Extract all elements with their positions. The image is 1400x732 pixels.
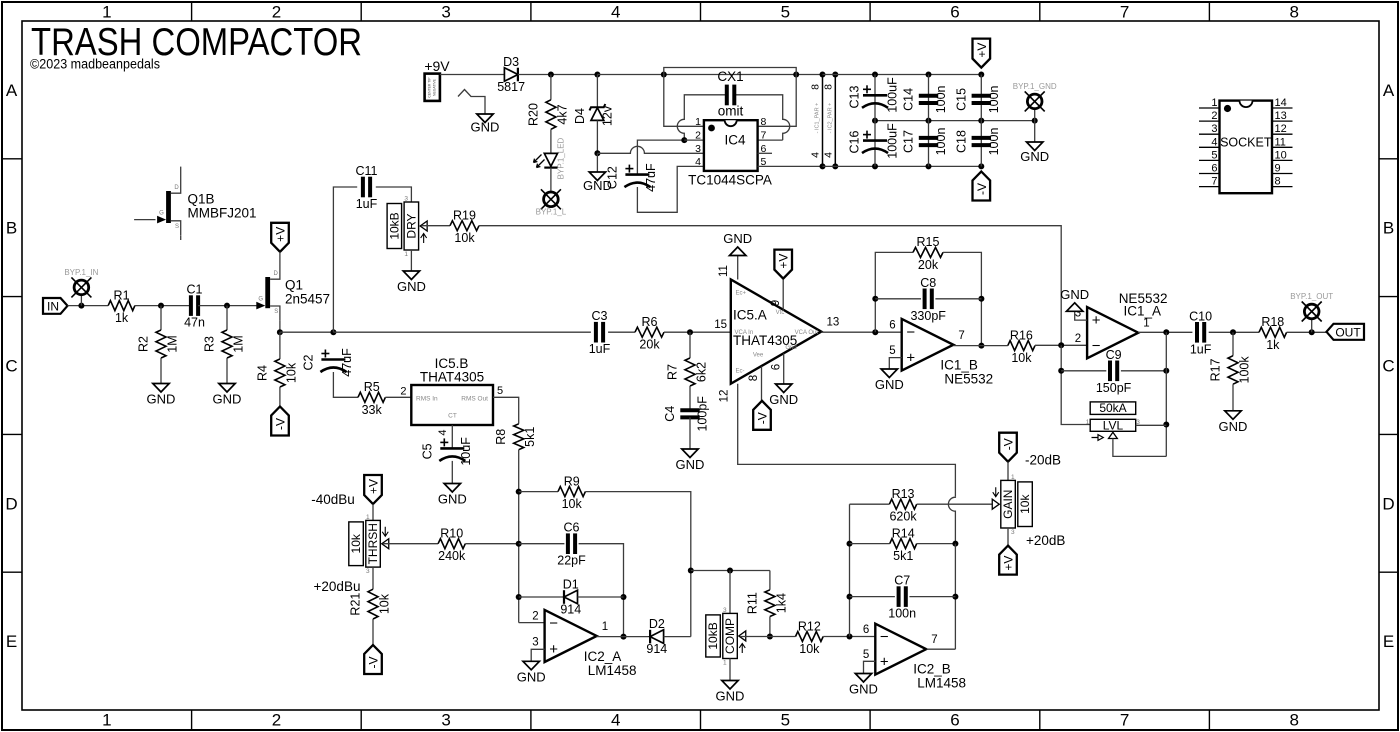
svg-text:1M: 1M	[166, 335, 180, 352]
svg-text:GND: GND	[676, 457, 705, 472]
svg-text:D3: D3	[503, 55, 519, 69]
capacitor C3	[594, 322, 598, 343]
connector OUT	[1327, 324, 1365, 340]
pad BYP.1_L	[544, 192, 559, 207]
junction	[926, 118, 932, 124]
svg-text:C2: C2	[301, 354, 315, 370]
svg-text:2: 2	[695, 130, 701, 142]
wire DRY wiper to R19	[422, 225, 451, 227]
ground C5	[444, 484, 460, 493]
resistor R8	[514, 424, 524, 450]
junction	[767, 634, 773, 640]
junction	[978, 296, 984, 302]
svg-text:NEGATIVE: NEGATIVE	[433, 78, 437, 96]
power +V rail	[973, 39, 991, 68]
wire C6 right	[579, 544, 624, 637]
svg-text:Vee: Vee	[753, 353, 764, 359]
svg-text:R8: R8	[494, 429, 508, 445]
svg-text:S: S	[175, 224, 179, 230]
wire D4 top	[596, 75, 598, 108]
wire GAIN bottom	[1007, 528, 1009, 546]
power +V IC5.A	[774, 250, 792, 279]
junction	[158, 303, 164, 309]
trimmer 50kA box	[1090, 402, 1136, 415]
resistor R16	[1008, 341, 1035, 351]
wire C11 left	[333, 187, 357, 332]
svg-text:4: 4	[437, 429, 449, 435]
svg-text:R1: R1	[114, 288, 130, 302]
svg-text:3: 3	[441, 3, 450, 22]
junction	[516, 541, 522, 547]
op-amp IC2_A	[545, 610, 597, 662]
svg-text:COMP: COMP	[723, 618, 737, 654]
junction	[847, 634, 853, 640]
svg-text:914: 914	[560, 603, 581, 617]
svg-text:omit: omit	[718, 104, 744, 119]
resistor R14	[890, 539, 917, 549]
wire pin12 to lower	[738, 384, 956, 497]
svg-text:LM1458: LM1458	[588, 663, 637, 678]
junction	[872, 118, 878, 124]
ground IC5.A pin6	[776, 384, 792, 393]
wire C1 to Q1 gate	[198, 305, 258, 307]
svg-text:C8: C8	[920, 276, 936, 290]
svg-text:7: 7	[1120, 3, 1129, 22]
wire pad BYP.1_IN	[80, 295, 82, 306]
op-amp IC2_B	[875, 624, 926, 675]
junction	[872, 72, 878, 78]
wire LVL wiper return	[1113, 439, 1166, 457]
power -V R4	[271, 407, 289, 436]
junction	[688, 568, 694, 574]
wire hop R13	[948, 496, 955, 543]
wire C13 leads	[874, 75, 876, 121]
wire pin13 out	[821, 331, 901, 333]
resistor R19	[450, 221, 479, 231]
svg-text:1: 1	[723, 660, 727, 667]
capacitor C7	[897, 586, 901, 607]
wire C8 left	[875, 298, 921, 300]
resistor R17	[1228, 356, 1238, 385]
svg-text:5k1: 5k1	[523, 427, 537, 447]
wire mid rail	[875, 120, 1035, 122]
capacitor C18	[972, 136, 991, 140]
junction	[621, 594, 627, 600]
svg-text:10k: 10k	[349, 533, 363, 553]
svg-text:Gnd: Gnd	[785, 345, 796, 351]
wire R14 left	[850, 543, 890, 545]
wire IC2_B out	[927, 648, 956, 650]
svg-text:7: 7	[761, 130, 767, 142]
wire pin8 riser	[758, 75, 797, 127]
capacitor C12	[625, 173, 649, 176]
svg-text:R18: R18	[1261, 315, 1284, 329]
junction	[847, 594, 853, 600]
svg-text:1: 1	[404, 251, 408, 258]
ground IC2_A pin3	[523, 661, 539, 670]
power pins IC2_PAR	[834, 75, 836, 167]
resistor R21	[368, 589, 378, 619]
wire R13 left	[850, 503, 890, 505]
svg-text:1uF: 1uF	[589, 342, 611, 356]
resistor R2	[156, 330, 166, 358]
svg-text:7: 7	[1211, 176, 1217, 188]
svg-text:240k: 240k	[438, 549, 466, 563]
capacitor C6	[566, 533, 570, 554]
svg-text:C3: C3	[592, 309, 608, 323]
wire R13 to GAIN wiper	[917, 503, 994, 505]
wire Q1B source	[180, 235, 182, 240]
power -V R21	[364, 645, 382, 674]
svg-text:TC1044SCPA: TC1044SCPA	[688, 173, 772, 188]
wire pin3 gnd hook	[1075, 311, 1087, 320]
wire R18 to OUT	[1287, 331, 1327, 333]
wire CX1 left	[684, 95, 726, 119]
svg-text:E: E	[6, 632, 17, 651]
junction	[978, 343, 984, 349]
wire D3 to node	[518, 74, 598, 76]
ground IC2_B pin5	[855, 674, 871, 683]
capacitor C1	[189, 295, 193, 316]
ground BYP.1_GND	[1027, 142, 1043, 151]
ground DRY	[403, 271, 419, 280]
svg-text:10: 10	[1275, 149, 1287, 161]
resistor R4	[275, 359, 285, 387]
svg-text:330pF: 330pF	[910, 309, 946, 323]
svg-text:-V: -V	[1002, 438, 1016, 450]
junction	[952, 594, 958, 600]
svg-text:8: 8	[761, 116, 767, 128]
power pins IC1_PAR	[822, 75, 824, 167]
wire C8 right	[935, 298, 981, 300]
wire R7 to C4	[689, 386, 691, 410]
svg-text:6k2: 6k2	[695, 362, 709, 382]
resistor R3	[222, 330, 232, 358]
diode D3	[517, 68, 519, 82]
svg-text:12v: 12v	[601, 105, 615, 126]
svg-text:+: +	[880, 654, 889, 671]
svg-text:Vtc: Vtc	[776, 310, 785, 316]
wire comp node row	[691, 570, 770, 572]
svg-text:+20dB: +20dB	[1026, 533, 1065, 548]
wire into pin2 IC2_A	[519, 622, 545, 624]
wire C10 to R18	[1209, 331, 1259, 333]
svg-text:10k: 10k	[1011, 351, 1032, 365]
svg-text:100pF: 100pF	[696, 396, 710, 432]
svg-text:2: 2	[272, 3, 281, 22]
svg-text:9: 9	[1275, 163, 1281, 175]
svg-text:10k: 10k	[454, 231, 475, 245]
svg-text:3: 3	[366, 568, 370, 575]
svg-text:7: 7	[1120, 711, 1129, 730]
capacitor C9	[1108, 361, 1112, 382]
svg-text:R6: R6	[642, 315, 658, 329]
DC jack J1	[425, 74, 440, 101]
junction	[224, 303, 230, 309]
power +V THRSH	[364, 475, 382, 504]
wire R1 to C1	[135, 305, 191, 307]
wire C9 right	[1121, 370, 1166, 372]
wire R17 to gnd	[1232, 384, 1234, 411]
ground jack	[477, 114, 493, 123]
svg-text:10k: 10k	[284, 362, 298, 383]
svg-text:4: 4	[611, 3, 620, 22]
svg-text:100uF: 100uF	[886, 77, 900, 113]
svg-text:- IC2_PAR +: - IC2_PAR +	[827, 103, 833, 134]
svg-text:MMBFJ201: MMBFJ201	[188, 206, 257, 221]
power -V GAIN	[999, 433, 1017, 462]
junction	[516, 594, 522, 600]
svg-text:1: 1	[1143, 318, 1149, 330]
capacitor C4	[680, 408, 699, 412]
svg-text:3: 3	[404, 196, 408, 203]
svg-text:GND: GND	[1219, 419, 1248, 434]
svg-text:IC2_B: IC2_B	[913, 662, 951, 677]
svg-text:R10: R10	[440, 527, 463, 541]
svg-text:+: +	[1092, 312, 1101, 329]
svg-text:2: 2	[1211, 110, 1217, 122]
svg-text:1k4: 1k4	[774, 593, 788, 613]
svg-text:+20dBu: +20dBu	[314, 579, 361, 594]
svg-text:C: C	[1382, 357, 1394, 376]
resistor R18	[1259, 327, 1287, 337]
wire IC1_B out	[953, 345, 1008, 347]
svg-text:B: B	[6, 219, 17, 238]
svg-text:C: C	[5, 357, 17, 376]
svg-text:1: 1	[102, 711, 111, 730]
wire R16 to pin2	[1035, 344, 1087, 346]
svg-text:5: 5	[1211, 149, 1217, 161]
capacitor C15	[972, 94, 991, 98]
junction	[820, 72, 826, 78]
transistor Q1	[265, 277, 270, 308]
svg-text:-V: -V	[975, 183, 989, 195]
svg-text:2: 2	[400, 386, 406, 398]
svg-text:D: D	[5, 494, 17, 513]
svg-text:SOCKET: SOCKET	[1220, 136, 1272, 150]
svg-text:8: 8	[810, 84, 822, 90]
wire pad BYP.1_OUT	[1311, 319, 1313, 333]
svg-text:1: 1	[602, 621, 608, 633]
svg-text:100n: 100n	[888, 607, 916, 621]
wire R11 bottom	[769, 617, 771, 637]
wire R19 to IC1_A node	[479, 226, 1061, 346]
svg-text:8: 8	[748, 375, 760, 381]
svg-text:6: 6	[863, 624, 869, 636]
svg-text:IN: IN	[47, 299, 59, 313]
svg-text:11: 11	[1275, 136, 1286, 148]
svg-text:7: 7	[931, 634, 937, 646]
svg-text:R9: R9	[564, 474, 580, 488]
svg-text:R2: R2	[137, 336, 151, 352]
diode D1	[563, 590, 565, 604]
wire R9 left	[519, 491, 558, 493]
svg-text:8: 8	[1289, 3, 1298, 22]
svg-text:15: 15	[714, 319, 727, 331]
svg-text:D: D	[274, 271, 279, 277]
svg-text:1uF: 1uF	[1190, 342, 1212, 356]
op-amp IC1_A	[1087, 307, 1138, 358]
svg-text:3: 3	[723, 607, 727, 614]
svg-text:47n: 47n	[184, 316, 205, 330]
junction	[872, 329, 878, 335]
junction	[832, 72, 838, 78]
svg-text:3: 3	[441, 711, 450, 730]
svg-text:GND: GND	[875, 377, 904, 392]
svg-text:R17: R17	[1209, 358, 1223, 381]
ground IC1_B pin5	[881, 369, 897, 378]
svg-text:13: 13	[1275, 110, 1287, 122]
svg-text:1: 1	[1211, 97, 1217, 109]
svg-text:150pF: 150pF	[1096, 381, 1132, 395]
svg-text:GND: GND	[213, 392, 242, 407]
svg-text:IC1_B: IC1_B	[940, 358, 978, 373]
svg-text:R3: R3	[203, 336, 217, 352]
wire top rail right	[823, 74, 982, 76]
svg-text:1k: 1k	[1266, 338, 1280, 352]
wire C3 to R6	[608, 331, 635, 333]
wire R3 top	[226, 306, 228, 330]
wire fb right	[943, 252, 981, 345]
svg-text:+: +	[906, 350, 915, 367]
svg-text:RMS In: RMS In	[416, 396, 438, 403]
svg-text:GND: GND	[769, 392, 798, 407]
svg-text:C13: C13	[848, 85, 862, 108]
svg-text:Q1: Q1	[285, 278, 303, 293]
svg-text:THRSH: THRSH	[366, 523, 380, 564]
svg-text:1: 1	[366, 514, 370, 521]
wire pin9 Vtc	[782, 280, 784, 310]
wire rail through CX1	[597, 74, 822, 76]
svg-text:10k: 10k	[378, 593, 392, 614]
junction	[978, 163, 984, 169]
junction	[1163, 368, 1169, 374]
capacitor C8	[923, 289, 927, 310]
resistor R11	[765, 590, 775, 617]
svg-text:BYP.1_L: BYP.1_L	[536, 208, 567, 217]
ground IC1_A pin3	[1067, 303, 1083, 312]
svg-text:R20: R20	[526, 103, 540, 126]
svg-text:13: 13	[827, 317, 840, 329]
svg-text:1: 1	[695, 116, 701, 128]
svg-text:GND: GND	[1060, 287, 1089, 302]
wire gnd stub D4	[596, 153, 598, 172]
svg-text:GND: GND	[716, 689, 745, 704]
svg-text:914: 914	[646, 642, 667, 656]
svg-text:9: 9	[770, 300, 782, 306]
svg-text:4: 4	[1211, 136, 1217, 148]
wire C9 left	[1061, 370, 1106, 372]
svg-text:C9: C9	[1106, 348, 1122, 362]
wire pin7 stub	[758, 139, 783, 141]
svg-text:+V: +V	[367, 479, 381, 494]
junction	[926, 72, 932, 78]
wire C12 top	[637, 140, 684, 175]
resistor R13	[889, 499, 916, 509]
svg-text:GND: GND	[147, 392, 176, 407]
svg-text:3: 3	[695, 143, 701, 155]
wire bottom rail right	[823, 165, 982, 167]
svg-text:R7: R7	[666, 364, 680, 380]
wire C12 bottom loop	[637, 166, 704, 212]
wire R7 top	[689, 332, 691, 358]
svg-text:D2: D2	[649, 617, 665, 631]
svg-text:100uF: 100uF	[886, 123, 900, 159]
svg-text:LVL: LVL	[1103, 419, 1124, 433]
svg-text:3: 3	[1211, 123, 1217, 135]
wire out to LVL	[1165, 332, 1167, 456]
svg-text:+V: +V	[1002, 556, 1016, 571]
svg-text:6: 6	[950, 711, 959, 730]
wire THRSH top	[372, 504, 374, 520]
wire R2 to gnd	[160, 358, 162, 384]
wire R9 right	[585, 492, 690, 637]
IC IC5.B THAT4305	[411, 385, 493, 425]
svg-text:IC1_A: IC1_A	[1124, 304, 1162, 319]
wire RMSOut to R8	[493, 397, 519, 424]
wire pin6 Gnd	[783, 353, 785, 384]
svg-text:-V: -V	[274, 418, 288, 430]
power -V IC5.A	[753, 401, 771, 430]
wire pin1 riser	[664, 75, 704, 127]
wire COMP wiper to R12	[740, 636, 795, 638]
svg-text:33k: 33k	[362, 403, 383, 417]
svg-text:GND: GND	[723, 231, 752, 246]
junction	[847, 541, 853, 547]
svg-text:C6: C6	[564, 521, 580, 535]
wire Q1B drain	[180, 167, 182, 179]
wire R2 top	[160, 306, 162, 330]
junction	[1230, 329, 1236, 335]
svg-text:6: 6	[889, 319, 895, 331]
svg-text:C7: C7	[894, 574, 910, 588]
svg-text:A: A	[1383, 81, 1395, 100]
power +V GAIN	[999, 546, 1017, 575]
wire pin5 gnd hook IC2_B	[864, 661, 876, 673]
resistor R12	[796, 632, 824, 642]
wire C7 left	[850, 596, 895, 598]
svg-text:D: D	[1382, 494, 1394, 513]
capacitor CX1	[725, 85, 729, 106]
svg-text:20k: 20k	[918, 258, 939, 272]
svg-text:R19: R19	[453, 209, 476, 223]
junction	[978, 118, 984, 124]
svg-text:BYP.1_LED: BYP.1_LED	[557, 137, 566, 179]
wire node column B	[849, 504, 851, 636]
svg-text:4: 4	[822, 152, 834, 158]
svg-text:CENTER TIP: CENTER TIP	[428, 77, 432, 98]
wire node column A	[518, 450, 520, 623]
junction	[78, 303, 84, 309]
svg-text:- IC1_PAR +: - IC1_PAR +	[815, 103, 821, 134]
svg-text:100n: 100n	[934, 128, 948, 156]
wire C16 leads	[874, 121, 876, 167]
svg-text:D4: D4	[573, 108, 587, 124]
ground R2	[153, 384, 169, 393]
svg-text:100n: 100n	[934, 85, 948, 113]
VCA IC5.A THAT4305	[731, 280, 822, 384]
svg-text:-V: -V	[756, 412, 770, 424]
svg-text:LM1458: LM1458	[917, 676, 966, 691]
wire Q1 drain	[279, 252, 281, 265]
wire R17 top	[1232, 332, 1234, 355]
wire R3 to gnd	[226, 358, 228, 384]
wire R20 top	[550, 75, 552, 100]
capacitor C14	[919, 94, 938, 98]
svg-text:1: 1	[1011, 474, 1015, 481]
svg-text:10uF: 10uF	[459, 437, 473, 466]
svg-text:C17: C17	[902, 130, 916, 153]
